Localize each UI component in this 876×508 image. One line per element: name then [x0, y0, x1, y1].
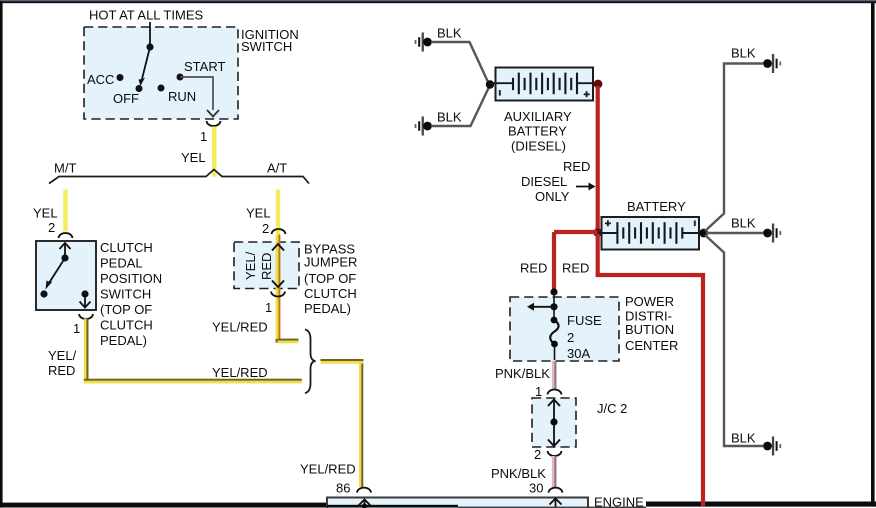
wire RED aux battery to main battery: [596, 86, 600, 233]
svg-text:RED: RED: [520, 261, 547, 276]
junction node above fuse: [550, 288, 557, 295]
svg-text:YEL/RED: YEL/RED: [300, 462, 356, 477]
wire RED battery down right side: [598, 234, 703, 506]
svg-text:BLK: BLK: [437, 109, 462, 124]
svg-text:SWITCH: SWITCH: [100, 287, 151, 302]
connector pin 1 J/C 2: [548, 390, 562, 395]
svg-text:2: 2: [262, 221, 269, 236]
branch arrow inside PDC: [550, 303, 557, 310]
connector pin 86 engine: [357, 488, 371, 493]
wire YEL to clutch pedal position switch: [63, 190, 67, 232]
svg-text:30A: 30A: [567, 346, 590, 361]
svg-text:JUMPER: JUMPER: [304, 255, 357, 270]
svg-text:2: 2: [567, 330, 574, 345]
ground G5 bottom right: [763, 437, 781, 456]
ground G1 top left: [415, 33, 432, 52]
svg-text:YEL: YEL: [181, 150, 206, 165]
clutch switch pin 2 arrow: [64, 244, 66, 259]
svg-text:POSITION: POSITION: [100, 271, 162, 286]
svg-text:RED: RED: [259, 253, 274, 280]
clutch switch pin 1 arrow: [81, 290, 88, 297]
svg-text:YEL/: YEL/: [48, 348, 77, 363]
svg-text:AUXILIARY: AUXILIARY: [504, 109, 572, 124]
contact START: [177, 74, 184, 81]
connector pin 1 bypass jumper: [271, 292, 285, 297]
ignition switch box: [84, 27, 238, 119]
svg-text:86: 86: [336, 481, 350, 496]
svg-text:CENTER: CENTER: [625, 338, 678, 353]
wire from HOT AT ALL TIMES into ignition switch: [149, 22, 151, 47]
contact RUN: [158, 85, 165, 92]
svg-text:(DIESEL): (DIESEL): [511, 139, 566, 154]
svg-text:SWITCH: SWITCH: [241, 39, 292, 54]
svg-text:PNK/BLK: PNK/BLK: [491, 466, 546, 481]
svg-text:1: 1: [535, 384, 542, 399]
svg-text:M/T: M/T: [54, 161, 76, 176]
power distribution center box: [510, 297, 619, 361]
ground G4 middle right: [763, 224, 781, 243]
svg-text:30: 30: [529, 481, 543, 496]
svg-text:YEL: YEL: [33, 206, 58, 221]
ignition switch lever: [146, 43, 153, 50]
svg-text:FUSE: FUSE: [567, 313, 602, 328]
connector pin 2 bypass jumper: [272, 229, 286, 234]
clutch pedal position switch box: [36, 241, 96, 310]
svg-text:HOT AT ALL TIMES: HOT AT ALL TIMES: [89, 8, 203, 23]
wire YEL/RED from clutch switch to brace: [84, 319, 87, 381]
svg-text:J/C 2: J/C 2: [597, 401, 627, 416]
svg-text:YEL: YEL: [246, 206, 271, 221]
frame left bar: [0, 1, 3, 508]
junction connector J/C 2 box: [532, 398, 576, 447]
svg-text:RED: RED: [562, 261, 589, 276]
branch line M/T A/T: [49, 170, 309, 184]
wire YEL/RED from brace to engine pin 86: [359, 359, 361, 487]
svg-text:DIESEL: DIESEL: [521, 174, 567, 189]
wire START to pin 1: [180, 77, 213, 110]
svg-text:POWER: POWER: [625, 294, 674, 309]
svg-text:2: 2: [48, 220, 55, 235]
svg-text:RUN: RUN: [168, 89, 196, 104]
connector pin 1 clutch switch: [79, 314, 93, 319]
svg-text:BATTERY: BATTERY: [627, 199, 686, 214]
svg-text:YEL/: YEL/: [243, 251, 258, 280]
svg-text:(TOP OF: (TOP OF: [304, 271, 356, 286]
svg-text:ACC: ACC: [87, 72, 114, 87]
connector pin 30 engine: [549, 488, 563, 493]
svg-text:PEDAL): PEDAL): [304, 301, 351, 316]
svg-text:1: 1: [200, 129, 207, 144]
bottom frame segments over engine box: [327, 505, 458, 508]
svg-text:1: 1: [265, 300, 272, 315]
wire PNK/BLK J/C 2 to engine pin 30: [552, 456, 555, 487]
svg-text:YEL/RED: YEL/RED: [212, 365, 268, 380]
contact OFF: [136, 85, 143, 92]
svg-text:RED: RED: [563, 159, 590, 174]
contact ACC: [117, 74, 124, 81]
svg-text:BLK: BLK: [731, 215, 756, 230]
clutch switch lever: [61, 254, 68, 261]
connector pin 2 J/C 2: [548, 451, 562, 456]
bypass jumper arrows: [272, 244, 284, 251]
svg-text:BLK: BLK: [437, 25, 462, 40]
wire YEL ignition to branch: [212, 127, 217, 177]
svg-text:PEDAL: PEDAL: [100, 256, 143, 271]
svg-text:BUTION: BUTION: [625, 322, 674, 337]
engine pin 86 arrow: [364, 500, 366, 508]
svg-text:CLUTCH: CLUTCH: [100, 240, 153, 255]
svg-text:ENGINE: ENGINE: [594, 495, 644, 508]
ground G2 bottom left: [415, 117, 432, 136]
svg-text:1: 1: [73, 321, 80, 336]
frame bottom bar: [0, 503, 328, 508]
svg-text:START: START: [184, 59, 225, 74]
svg-text:CLUTCH: CLUTCH: [100, 318, 153, 333]
svg-text:BLK: BLK: [731, 431, 756, 446]
connector pin 2 clutch switch: [59, 233, 73, 238]
svg-text:BATTERY: BATTERY: [508, 124, 567, 139]
main battery: [593, 217, 708, 250]
arrow diesel only: [576, 186, 590, 188]
bypass jumper box: [234, 242, 299, 289]
svg-text:BLK: BLK: [731, 45, 756, 60]
svg-text:(TOP OF: (TOP OF: [100, 302, 152, 317]
wire YEL/RED from bypass jumper to brace: [276, 339, 278, 343]
brace joining YEL/RED wires: [305, 329, 316, 393]
svg-text:PEDAL): PEDAL): [100, 333, 147, 348]
engine control box: [327, 498, 588, 508]
frame top bar: [0, 0, 876, 1]
engine pin 30 arrow: [555, 500, 557, 508]
wire RED battery to PDC: [554, 230, 597, 234]
auxiliary battery: [486, 68, 603, 101]
connector pin 1 ignition: [207, 121, 221, 126]
J/C 2 internal wire: [553, 400, 555, 445]
frame right bar: [871, 3, 875, 507]
fuse F2 30A: [551, 317, 558, 324]
svg-text:PNK/BLK: PNK/BLK: [495, 366, 550, 381]
svg-text:CLUTCH: CLUTCH: [304, 286, 357, 301]
wire BLK to aux battery negative: [431, 86, 490, 126]
wire PNK/BLK fuse to J/C 2: [552, 361, 555, 390]
ground G3 top right: [763, 54, 781, 73]
svg-text:2: 2: [534, 447, 541, 462]
svg-text:YEL/RED: YEL/RED: [212, 320, 268, 335]
svg-text:OFF: OFF: [113, 91, 139, 106]
wire YEL to bypass jumper: [276, 190, 280, 235]
wire BLK to aux battery negative: [431, 42, 489, 83]
svg-text:A/T: A/T: [267, 161, 287, 176]
svg-text:ONLY: ONLY: [535, 189, 570, 204]
wire YEL/RED through bypass jumper: [276, 235, 279, 340]
svg-text:RED: RED: [48, 363, 75, 378]
wire BLK battery to grounds right: [705, 64, 763, 232]
